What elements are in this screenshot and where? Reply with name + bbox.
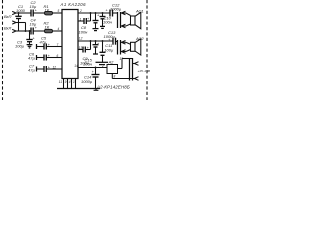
bootstrap capacitor C9b <box>78 49 83 51</box>
capacitor C9 vertical <box>95 13 97 21</box>
svg-text:АС2: АС2 <box>135 36 144 41</box>
svg-text:АС1: АС1 <box>135 9 144 14</box>
contact wire top <box>121 12 127 14</box>
capacitor C6 row (pin 6) <box>36 55 38 60</box>
svg-text:4: 4 <box>69 80 71 84</box>
Vcc wire pin 3 <box>78 67 107 69</box>
bootstrap capacitor C8 <box>78 20 84 22</box>
svg-text:4: 4 <box>58 27 60 31</box>
A2 bottom pin <box>111 74 113 79</box>
resistor R2 <box>45 29 53 33</box>
capacitor C11 vertical <box>102 41 104 52</box>
svg-text:100н: 100н <box>103 20 113 25</box>
svg-text:ВхЛ: ВхЛ <box>4 26 12 31</box>
right dashed border <box>146 0 148 100</box>
minus supply wire <box>112 78 132 80</box>
plus signs <box>33 8 112 74</box>
speaker BA1 <box>131 16 136 25</box>
svg-text:100µ: 100µ <box>15 44 25 49</box>
speaker BA2 <box>131 42 136 51</box>
connector X1 lines <box>117 12 119 28</box>
svg-text:1000µ: 1000µ <box>110 7 122 12</box>
svg-text:47µ: 47µ <box>28 67 35 72</box>
svg-text:47µ: 47µ <box>28 56 35 61</box>
contact wire bottom ch2 <box>121 51 127 53</box>
A2 right pin wire <box>118 68 123 70</box>
svg-text:1: 1 <box>80 17 82 21</box>
svg-text:+15..25В: +15..25В <box>138 69 150 73</box>
svg-text:12: 12 <box>79 37 83 41</box>
connector X2 lines <box>117 40 119 55</box>
resistor R1 <box>45 11 53 15</box>
ground bus <box>57 88 100 90</box>
svg-text:2: 2 <box>101 64 104 68</box>
capacitor C2 plates <box>30 10 32 17</box>
capacitor C4 plates <box>30 28 32 35</box>
svg-text:7: 7 <box>57 43 59 47</box>
wire C2 to R1 <box>33 12 44 14</box>
text labels <box>4 0 150 90</box>
power connector lines <box>129 58 131 81</box>
input arrow XS3 (common) <box>12 29 16 32</box>
junction dots <box>18 12 104 68</box>
wire input1 to C2 <box>16 12 31 14</box>
capacitor C14 <box>95 68 97 75</box>
svg-text:А2-КР142ЕН8Б: А2-КР142ЕН8Б <box>96 85 130 90</box>
svg-text:А1 КА2206: А1 КА2206 <box>60 2 87 7</box>
svg-text:13: 13 <box>79 46 83 50</box>
capacitor C1 branch <box>18 13 20 16</box>
capacitor C13 plates <box>112 38 114 45</box>
svg-text:47µ: 47µ <box>40 39 47 44</box>
IC A1 box <box>62 10 78 79</box>
IC bottom pin stubs <box>63 79 65 89</box>
svg-text:А2: А2 <box>108 59 115 64</box>
regulator A2 box <box>107 65 118 74</box>
svg-text:1000: 1000 <box>16 8 26 13</box>
plus contact <box>133 63 135 65</box>
wire R2 to pin 4 <box>53 30 63 32</box>
ground symbol under C3 <box>27 44 33 46</box>
capacitor C10 vertical <box>102 13 104 17</box>
output wire channel 1 (pin 2) <box>78 12 110 14</box>
wire input2 <box>16 22 26 24</box>
svg-text:1К: 1К <box>45 8 50 13</box>
svg-text:1: 1 <box>73 80 75 84</box>
capacitor C5 row (pin 7) <box>36 44 38 49</box>
svg-text:2: 2 <box>79 9 82 13</box>
svg-text:ВхП: ВхП <box>4 14 12 19</box>
svg-text:14: 14 <box>74 64 78 68</box>
ground symbol at bus end <box>95 89 97 91</box>
input arrow XS2 (left channel) <box>12 21 16 24</box>
svg-text:100н: 100н <box>79 30 89 35</box>
capacitor C7 row (pin 12) <box>36 67 38 72</box>
wire bend down to lower line <box>25 23 27 32</box>
svg-text:1000µ: 1000µ <box>81 79 93 84</box>
svg-text:8: 8 <box>114 75 116 79</box>
svg-text:6: 6 <box>57 54 59 58</box>
capacitor C12 plates <box>109 10 111 17</box>
svg-text:11: 11 <box>59 80 63 84</box>
output wire channel 2 (pin 12) <box>78 40 113 42</box>
svg-text:100н: 100н <box>83 62 93 67</box>
capacitor C3 electrolytic branch <box>29 31 31 40</box>
pin numbers <box>53 9 124 84</box>
wire C4 to R2 <box>33 30 44 32</box>
contact wire bottom <box>121 25 127 27</box>
contact wire top ch2 <box>121 41 127 43</box>
svg-text:12: 12 <box>53 66 57 70</box>
svg-text:17: 17 <box>120 57 124 61</box>
svg-text:1К: 1К <box>45 24 50 29</box>
wire R1 to pin 5 <box>53 12 63 14</box>
capacitor ch2 vertical at 95.5 <box>95 41 97 45</box>
minus contact <box>133 78 135 80</box>
svg-text:100µ: 100µ <box>104 48 114 53</box>
left dashed border <box>2 0 4 100</box>
svg-text:9: 9 <box>65 80 67 84</box>
svg-text:5: 5 <box>58 9 60 13</box>
input arrow XS1 (right channel) <box>12 11 16 14</box>
wire common line <box>16 30 31 32</box>
